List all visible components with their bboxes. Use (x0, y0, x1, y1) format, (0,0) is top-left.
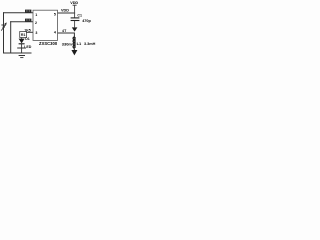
pin 3 (35, 31, 37, 35)
svg-text:470p: 470p (82, 19, 91, 23)
pin 5 (54, 12, 56, 16)
pin 4 (54, 30, 56, 34)
svg-text:3.3mH: 3.3mH (84, 42, 96, 46)
svg-text:330m: 330m (62, 41, 73, 46)
label L1 value right (84, 42, 96, 46)
op-amp U1 (IC box) (33, 10, 58, 40)
pin 1 (35, 13, 37, 17)
node label LX (62, 29, 67, 33)
svg-text:C1: C1 (77, 13, 82, 17)
svg-text:4: 4 (54, 30, 56, 34)
label L1 value left (62, 41, 73, 46)
capacitor C1 (71, 13, 80, 27)
wire LX pin to inductor (58, 33, 75, 37)
svg-text:1: 1 (35, 13, 37, 17)
label C1 (77, 13, 82, 17)
label D1 (25, 37, 30, 41)
node label C (24, 28, 31, 32)
node VDD (net label) (61, 8, 69, 12)
wire row3 to pin3 (27, 31, 34, 33)
wire inner vertical (10, 22, 12, 53)
svg-text:5: 5 (54, 12, 56, 16)
svg-text:D1: D1 (25, 37, 30, 41)
ground (LED) (17, 48, 26, 58)
svg-text:3: 3 (35, 31, 37, 35)
wire left vertical (3, 13, 5, 53)
inductor L1 (73, 37, 75, 50)
svg-text:VDD: VDD (70, 1, 78, 5)
battery BT1 (solar cell) (1, 22, 7, 30)
pin 2 (35, 21, 37, 25)
label U1 part number (39, 41, 58, 46)
node label B (25, 19, 31, 22)
LED D1 (19, 38, 25, 48)
ground (L1 arrow) (71, 50, 77, 55)
wire row2 to pin2 (11, 21, 33, 23)
label L1 (77, 41, 82, 46)
label LED (24, 45, 32, 49)
resistor R1 (20, 32, 27, 38)
wire bottom rail (4, 52, 32, 54)
svg-text:2: 2 (35, 21, 37, 25)
wire VDD pin to node (58, 12, 75, 14)
svg-text:ZXSC300: ZXSC300 (39, 41, 58, 46)
label C1 value (82, 19, 91, 23)
svg-text:VDD: VDD (61, 8, 69, 12)
ground (C1 arrow) (72, 27, 78, 31)
wire top rail (4, 12, 34, 14)
power flag VDD (70, 1, 78, 13)
svg-text:4T: 4T (62, 29, 67, 33)
svg-text:L1: L1 (77, 41, 82, 46)
node label A (25, 10, 31, 13)
